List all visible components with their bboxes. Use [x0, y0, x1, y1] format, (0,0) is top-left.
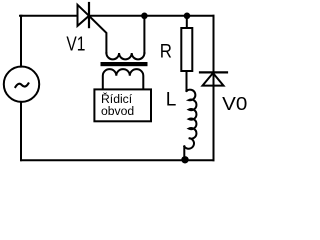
wire top-left segment — [20, 15, 78, 17]
wire resistor to inductor — [186, 71, 188, 91]
transformer top winding right lead wire — [143, 16, 145, 53]
resistor R body — [181, 28, 192, 71]
svg-text:V1: V1 — [66, 33, 85, 55]
transformer top winding — [106, 53, 144, 59]
wire bottom — [21, 159, 214, 161]
wire right vertical — [213, 16, 215, 160]
svg-text:obvod: obvod — [101, 104, 134, 118]
wire top main segment — [89, 15, 214, 17]
wire left vertical lower — [20, 102, 22, 160]
ac source G — [4, 67, 39, 102]
control circuit box — [94, 89, 151, 121]
transformer core bar — [101, 62, 148, 66]
svg-text:V0: V0 — [222, 94, 247, 114]
junction node: inductor lead on bottom wire — [181, 156, 188, 163]
diode V0 cathode bar — [200, 71, 227, 73]
thyristor V1 triangle (anode) — [78, 5, 90, 26]
svg-text:L: L — [166, 90, 177, 111]
diode V0 triangle (anode, pointing up) — [203, 73, 224, 86]
transformer bottom winding — [103, 69, 144, 89]
inductor L bottom lead wire — [183, 146, 185, 160]
resistor R top lead wire — [186, 16, 188, 28]
junction node: resistor lead on top wire — [184, 13, 191, 20]
inductor L coil — [184, 90, 196, 149]
junction node: transformer lead on top wire — [141, 13, 148, 20]
thyristor V1 cathode bar — [88, 3, 90, 27]
svg-text:R: R — [160, 42, 172, 63]
wire left vertical upper — [20, 16, 23, 67]
thyristor V1 gate wire — [89, 16, 106, 53]
ac sine symbol — [15, 83, 28, 87]
